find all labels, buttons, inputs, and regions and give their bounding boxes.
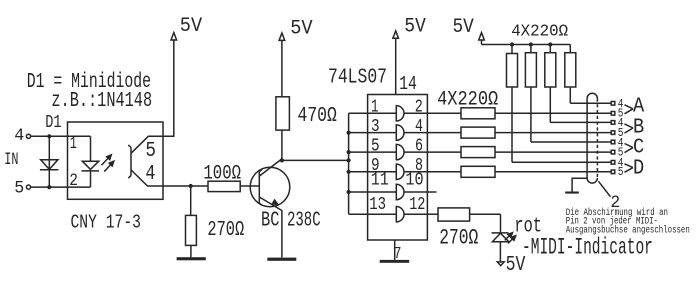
svg-text:7: 7 [394,246,402,264]
svg-text:4X220Ω: 4X220Ω [511,22,568,40]
svg-text:5V: 5V [180,14,203,37]
svg-text:1: 1 [70,135,77,154]
svg-text:14: 14 [399,74,417,95]
svg-text:2: 2 [69,171,78,191]
svg-text:10: 10 [405,170,423,191]
svg-text:100Ω: 100Ω [203,163,241,185]
svg-text:238C: 238C [287,209,321,233]
svg-text:270Ω: 270Ω [207,218,244,242]
svg-text:5V: 5V [453,15,475,38]
svg-text:4: 4 [14,127,24,146]
svg-text:Ausgangsbuchse angeschlossen: Ausgangsbuchse angeschlossen [566,225,690,236]
svg-text:-MIDI-Indicator: -MIDI-Indicator [522,235,653,261]
svg-text:5: 5 [371,135,380,156]
svg-text:5V: 5V [404,14,426,37]
svg-text:270Ω: 270Ω [439,225,478,250]
svg-text:13: 13 [369,193,386,214]
svg-text:470Ω: 470Ω [298,103,337,128]
svg-text:5: 5 [618,166,624,179]
svg-text:2: 2 [415,97,423,118]
svg-text:2: 2 [610,193,620,213]
svg-text:3: 3 [371,115,380,136]
svg-text:6: 6 [415,135,423,156]
svg-text:12: 12 [409,194,425,215]
svg-text:5: 5 [145,138,156,162]
svg-text:IN: IN [4,151,18,170]
svg-text:5: 5 [14,179,24,198]
svg-text:4: 4 [145,161,155,186]
svg-text:11: 11 [371,170,389,191]
svg-text:4X220Ω: 4X220Ω [437,87,498,111]
svg-text:BC: BC [261,208,279,232]
svg-text:D1: D1 [45,112,61,132]
svg-text:D: D [633,157,644,182]
svg-text:5V: 5V [290,17,313,40]
svg-text:74LS07: 74LS07 [328,64,387,89]
svg-text:4: 4 [415,116,423,137]
svg-text:z.B.:1N4148: z.B.:1N4148 [51,89,152,113]
svg-text:CNY 17-3: CNY 17-3 [71,213,142,234]
